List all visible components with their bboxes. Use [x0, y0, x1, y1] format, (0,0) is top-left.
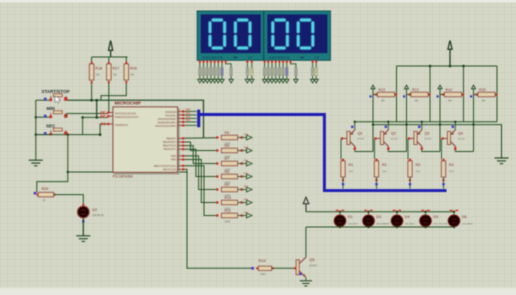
svg-text:D2: D2 [92, 208, 97, 212]
wire D2 to ground [82, 218, 84, 235]
transistor Q3 [414, 132, 417, 145]
svg-text:R2: R2 [382, 163, 387, 167]
svg-text:LED-GREY: LED-GREY [462, 223, 474, 225]
node SGF terminal [247, 200, 253, 205]
wire rail drop 1 [396, 66, 398, 122]
wire base to resistor [340, 139, 342, 160]
digit 0 [297, 19, 314, 49]
wire SEC row [36, 134, 100, 136]
wire Q5 emitter [305, 277, 307, 280]
pin RB2 [178, 145, 184, 147]
resistor R16 [124, 64, 128, 80]
wire RB7 under MCU [68, 171, 187, 173]
svg-text:R17: R17 [113, 66, 120, 70]
svg-text:1 2: 1 2 [315, 56, 320, 60]
wire rail drop 3 [463, 66, 465, 122]
svg-text:R9: R9 [225, 183, 230, 187]
svg-text:LED-RED: LED-RED [348, 223, 358, 225]
svg-text:MIN: MIN [47, 106, 55, 111]
wire rail drop 4 [496, 66, 498, 122]
svg-text:RB4: RB4 [171, 154, 177, 158]
wire LED anode bus [306, 211, 454, 213]
svg-text:Q3: Q3 [425, 132, 430, 136]
power terminal (LED row) [303, 197, 309, 204]
svg-text:R12: R12 [379, 88, 386, 92]
svg-text:PIC16F628A: PIC16F628A [113, 175, 134, 179]
node SGC terminal [247, 161, 253, 166]
wire emitter up [454, 122, 456, 130]
wire drop to RA6 row [96, 100, 98, 117]
wire emitter bus [355, 121, 498, 123]
wire [406, 95, 408, 152]
svg-text:R10: R10 [225, 196, 232, 200]
svg-text:R14: R14 [446, 88, 453, 92]
svg-text:R19: R19 [259, 259, 266, 263]
LED D3 [368, 212, 370, 216]
svg-text:R16: R16 [130, 66, 137, 70]
svg-text:LED-GREEN: LED-GREEN [376, 223, 389, 225]
resistor R9 [184, 156, 216, 190]
svg-text:R3: R3 [416, 163, 421, 167]
resistor R19 [259, 266, 272, 270]
LED D5 [425, 212, 427, 216]
DISP1 pins [199, 60, 201, 67]
pin RB3 [178, 148, 184, 150]
svg-text:1k00: 1k00 [416, 171, 422, 173]
svg-text:ABCDEFG: ABCDEFG [202, 56, 223, 60]
svg-text:RB3/CCP1: RB3/CCP1 [164, 147, 177, 151]
wire R19 to Q5 base [272, 267, 297, 269]
DISP2 pins [264, 60, 266, 67]
svg-text:RA1/AN1: RA1/AN1 [165, 113, 176, 117]
svg-text:RA6/OSC2/CLKOUT: RA6/OSC2/CLKOUT [115, 115, 139, 119]
svg-text:RB2/TX/CK: RB2/TX/CK [163, 144, 176, 148]
svg-text:Q1: Q1 [358, 132, 363, 136]
pin RA0 [178, 110, 184, 112]
wire base to resistor [407, 139, 409, 160]
LED D2 [77, 206, 89, 218]
ground (right) [501, 125, 503, 158]
svg-text:RB1/RX/DT: RB1/RX/DT [163, 140, 177, 144]
digit 0 [234, 19, 251, 49]
svg-text:SEC: SEC [46, 123, 56, 128]
svg-text:1k00: 1k00 [349, 171, 355, 173]
wire RB7 to R19 [184, 169, 252, 268]
7-segment display DISP2 [264, 11, 331, 60]
resistor R5 [184, 137, 216, 139]
svg-text:SGG: SGG [244, 212, 249, 214]
wire R18 to START/STOP row [91, 81, 93, 100]
pin (left) y=116.2 [108, 115, 113, 117]
LED D4 [396, 212, 398, 216]
resistor R20 [38, 192, 53, 196]
wire collector [388, 147, 406, 152]
wire LED cathode bus [306, 226, 454, 228]
svg-text:R6: R6 [225, 144, 230, 148]
resistor R3 [409, 160, 411, 162]
svg-text:RB7/T1OSI: RB7/T1OSI [163, 167, 176, 171]
svg-text:BC556: BC556 [458, 139, 465, 141]
resistor R8 [184, 149, 216, 176]
wire [125, 57, 127, 64]
pin (left) y=112.5 [108, 112, 113, 114]
svg-text:ABCDEFG: ABCDEFG [269, 56, 290, 60]
svg-text:SGA: SGA [244, 133, 249, 136]
svg-text:D6: D6 [462, 215, 467, 219]
wire R17 to MIN row [108, 81, 110, 114]
transistor Q1 [347, 132, 350, 145]
resistor R18 [89, 64, 93, 80]
svg-text:DP: DP [300, 56, 304, 60]
microcontroller U1 PIC16F628A [178, 108, 180, 174]
LED D6 [453, 212, 455, 216]
svg-text:SGD: SGD [244, 173, 249, 175]
wire to blue bus [342, 177, 344, 189]
wire collector bus to ground [373, 125, 502, 157]
svg-text:START/STOP: START/STOP [42, 89, 70, 94]
wire [108, 57, 110, 64]
wire [82, 117, 84, 134]
pin RA2 [178, 117, 184, 119]
wire emitter up [387, 122, 389, 130]
wire [91, 57, 93, 64]
pin RB0 [178, 137, 184, 139]
svg-text:DP: DP [233, 56, 237, 60]
wire R20 to D2 [54, 195, 84, 207]
ground (Q5) [300, 280, 312, 282]
resistor R13 [405, 85, 409, 89]
svg-text:R18: R18 [95, 66, 102, 70]
wire [439, 95, 441, 152]
svg-text:RA3: RA3 [186, 119, 191, 122]
svg-text:220R: 220R [225, 222, 231, 224]
wire emitter up [421, 122, 423, 130]
svg-text:RB6/T1OSO/T1CKI: RB6/T1OSO/T1CKI [154, 164, 177, 168]
svg-text:Q4: Q4 [458, 132, 463, 136]
power terminal VCC (right) [448, 41, 452, 50]
pin RA3 [178, 121, 184, 123]
svg-text:R13: R13 [412, 88, 419, 92]
svg-text:RA0/AN0: RA0/AN0 [165, 110, 176, 114]
svg-text:SGB: SGB [244, 147, 249, 149]
wire collector [355, 147, 373, 152]
pin RB6 [178, 165, 184, 167]
resistor R17 [107, 64, 111, 80]
svg-text:R11: R11 [225, 209, 231, 213]
svg-text:RA7/OSC1/CLKIN: RA7/OSC1/CLKIN [115, 111, 136, 115]
wire left column [35, 100, 37, 160]
wire collector [422, 147, 440, 152]
svg-text:RA4/T0CKI/CMP2: RA4/T0CKI/CMP2 [155, 124, 176, 128]
svg-text:BC556: BC556 [425, 139, 432, 141]
resistor R11 [184, 166, 216, 216]
pin RA4 [178, 124, 184, 126]
transistor Q5 [296, 260, 299, 275]
pin RA1 [178, 114, 184, 116]
7-segment display DISP1 [197, 11, 264, 60]
wire to MCU RA6 pin [83, 116, 108, 118]
wire to blue bus [409, 177, 411, 189]
wire rail drop 2 [429, 66, 431, 122]
svg-text:1k00: 1k00 [261, 274, 267, 276]
ground (D2) [82, 218, 84, 236]
wire [372, 95, 374, 152]
node SGD terminal [247, 174, 253, 179]
svg-text:BC547: BC547 [310, 265, 318, 268]
digit 0 [272, 19, 289, 49]
wire emitter up [354, 122, 356, 130]
node SGE terminal [247, 187, 253, 192]
power terminal VCC (left) [109, 41, 113, 51]
resistor R15 [472, 85, 476, 89]
transistor Q2 [381, 132, 384, 145]
svg-text:LED-BLUE: LED-BLUE [92, 215, 104, 217]
wire Q5 collector to LED bus [305, 227, 307, 257]
svg-text:D3: D3 [376, 215, 381, 219]
svg-text:R7: R7 [225, 157, 230, 161]
resistor R7 [184, 146, 216, 164]
svg-text:RA2/AN2/VREF: RA2/AN2/VREF [158, 117, 177, 121]
wire MIN to MCU RA7 pin [67, 113, 108, 115]
transistor Q4 [448, 132, 451, 145]
svg-text:R15: R15 [479, 88, 486, 92]
wire to R20 [37, 135, 68, 193]
pin RB5 [178, 159, 184, 161]
svg-text:D5: D5 [433, 215, 438, 219]
svg-text:RB5: RB5 [171, 158, 177, 162]
pin RB1 [178, 141, 184, 143]
resistor R6 [184, 142, 216, 151]
svg-text:Q5: Q5 [310, 258, 315, 262]
resistor R2 [376, 160, 378, 162]
svg-text:R8: R8 [225, 170, 230, 174]
svg-text:LED-YELLOW: LED-YELLOW [433, 223, 448, 225]
svg-text:R5: R5 [225, 131, 230, 135]
svg-text:R4: R4 [449, 163, 454, 167]
ground (buttons) [35, 159, 37, 161]
wire base to resistor [441, 139, 443, 160]
wire R16 jog to wrap line [101, 81, 126, 100]
svg-text:LED-RED: LED-RED [405, 223, 415, 225]
svg-text:SGC: SGC [244, 160, 249, 162]
svg-text:SGE: SGE [244, 186, 249, 188]
wire VCC rail left [92, 56, 128, 58]
svg-text:R1: R1 [349, 163, 354, 167]
svg-text:SGF: SGF [244, 199, 249, 201]
svg-text:D4: D4 [405, 215, 410, 219]
wire to MCU RA5/MCLR pin [100, 124, 108, 135]
bus (blue) from MCU port A [197, 110, 200, 128]
svg-text:1k00: 1k00 [382, 171, 388, 173]
node SGA terminal [247, 135, 253, 140]
wire base to resistor [374, 139, 376, 160]
pin (left) y=124 [108, 123, 113, 125]
svg-text:1k00: 1k00 [449, 171, 455, 173]
node SGG terminal [247, 213, 253, 218]
mouse cursor [55, 96, 61, 104]
pin RB7 [178, 168, 184, 170]
svg-text:R20: R20 [42, 187, 49, 191]
LED D1 [339, 212, 341, 216]
wire VCC rail right [397, 65, 498, 67]
svg-text:RA5/MCLR: RA5/MCLR [115, 123, 128, 127]
svg-text:MICROCHIP: MICROCHIP [115, 101, 141, 106]
wire [66, 114, 67, 118]
resistor R10 [184, 160, 216, 203]
wire to blue bus [376, 177, 378, 189]
resistor R14 [438, 85, 442, 89]
node SGB terminal [247, 148, 253, 153]
svg-text:Q2: Q2 [391, 132, 396, 136]
wire [473, 95, 475, 152]
digit 0 [209, 19, 226, 49]
resistor R1 [342, 160, 344, 162]
wire collector [455, 147, 473, 152]
pin RB4 [178, 155, 184, 157]
svg-text:1 2: 1 2 [248, 56, 253, 60]
svg-text:BC556: BC556 [358, 139, 365, 141]
resistor R12 [371, 85, 375, 89]
svg-text:RB0/INT: RB0/INT [166, 136, 176, 140]
resistor R4 [443, 160, 445, 162]
svg-text:BC556: BC556 [391, 139, 398, 141]
svg-text:D1: D1 [348, 215, 353, 219]
wire to blue bus [443, 177, 445, 189]
svg-text:RA3/AN3/CMP1: RA3/AN3/CMP1 [158, 120, 177, 124]
wire START/STOP row wrap to R5 row [66, 100, 204, 137]
